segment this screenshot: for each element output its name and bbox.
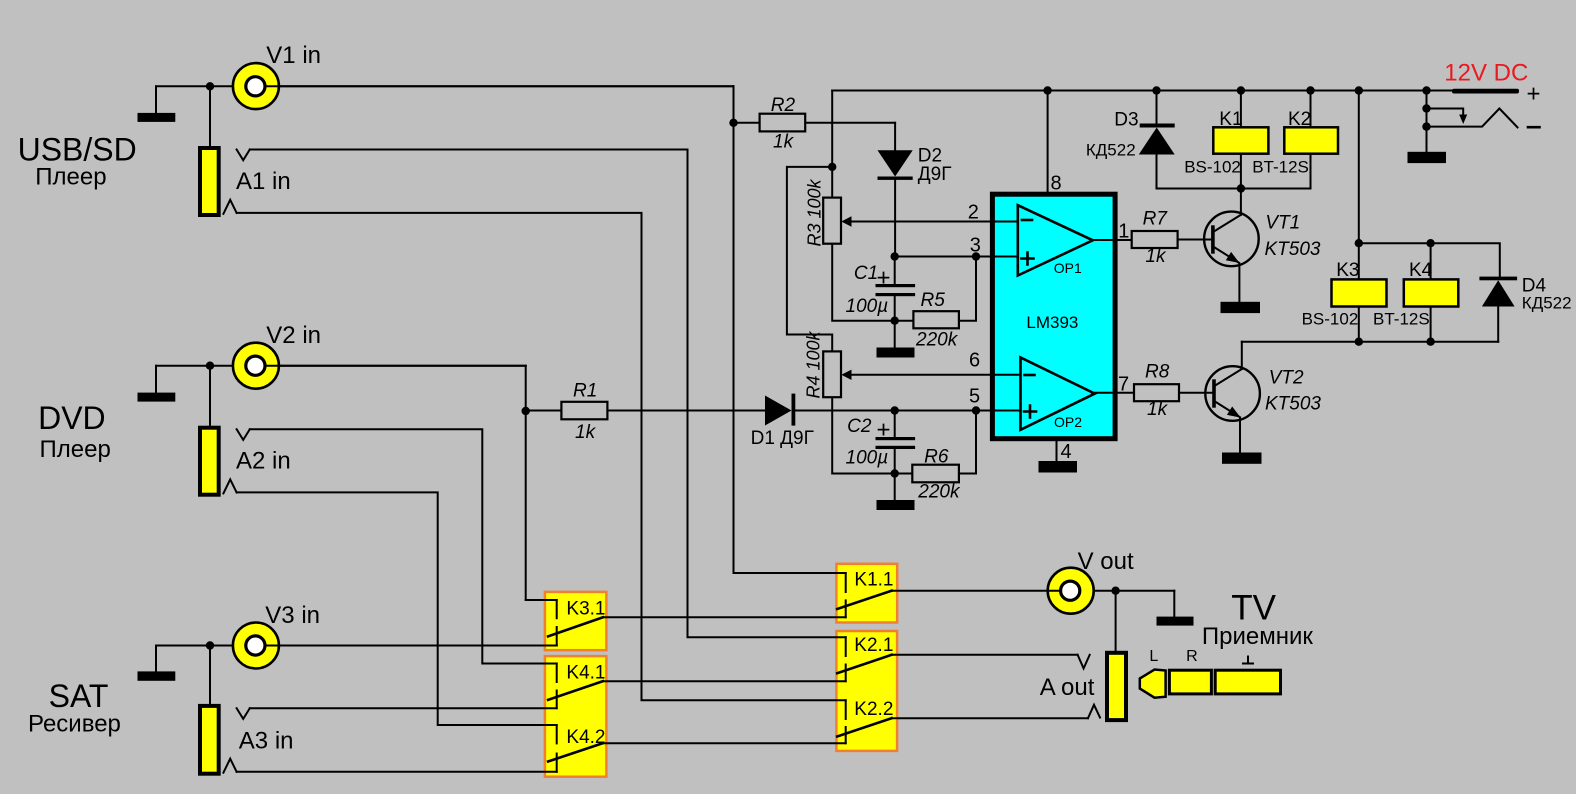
capacitor C2: [894, 411, 896, 438]
resistor R2: [760, 95, 806, 152]
svg-text:KT503: KT503: [1265, 239, 1321, 260]
wire R2 right lead to D2: [805, 122, 895, 124]
ground (SAT input): [155, 646, 157, 672]
svg-text:R6: R6: [924, 447, 949, 468]
svg-text:100µ: 100µ: [846, 448, 889, 469]
wire A1 bottom bus to K2.2: [237, 213, 846, 700]
ground (pin 4): [1039, 461, 1078, 473]
resistor R8 1k: [1134, 362, 1179, 420]
jack contact chevron A3 bottom: [223, 759, 236, 773]
jack contact chevron A3 top: [237, 708, 250, 719]
wire A3 top to K4.1 bottom: [250, 707, 557, 709]
diode D1: [765, 396, 792, 426]
wire pin 1 output: [1093, 239, 1132, 241]
svg-text:Плеер: Плеер: [35, 164, 106, 191]
transistor VT1 KT503: [1204, 212, 1259, 267]
potentiometer R4 100k: [804, 330, 842, 398]
svg-text:BT-12S: BT-12S: [1252, 158, 1309, 177]
wire DC jack contacts: [1426, 91, 1428, 152]
power plug sleeve bar: [1452, 89, 1519, 94]
IC U1 LM393 body: [992, 194, 1115, 439]
node C2 top / pin5: [891, 406, 899, 414]
svg-text:USB/SD: USB/SD: [18, 132, 137, 168]
wire relay K2 coil feed: [1310, 91, 1312, 189]
node R1 tap on V2 bus: [522, 407, 530, 415]
node K3 bottom: [1355, 338, 1363, 346]
svg-text:1k: 1k: [575, 422, 597, 443]
audio jack A1 in: [200, 148, 219, 215]
svg-text:Ресивер: Ресивер: [28, 711, 121, 738]
svg-text:R3 100k: R3 100k: [805, 178, 825, 246]
svg-text:K4: K4: [1409, 260, 1433, 281]
wire A1 jack feed: [209, 86, 211, 148]
wire R6 left lead: [895, 473, 913, 475]
svg-text:SAT: SAT: [49, 678, 109, 714]
svg-text:R2: R2: [771, 95, 796, 116]
relay contact box K3.1: [545, 592, 607, 650]
wire K3.1 common to K1.1 bottom: [603, 616, 846, 618]
svg-text:A out: A out: [1040, 674, 1095, 701]
wire pin 6 inside: [992, 374, 1020, 376]
wire K4.1 common to K2.1 bottom: [603, 680, 846, 682]
wire R4 bottom to C2 bottom node: [832, 397, 895, 473]
wire R2 left lead: [734, 122, 760, 124]
svg-text:R5: R5: [921, 290, 946, 311]
svg-text:R1: R1: [573, 381, 597, 402]
svg-text:OP2: OP2: [1054, 414, 1082, 430]
jack contact chevron A out bottom: [1088, 705, 1100, 718]
svg-text:1k: 1k: [1147, 399, 1169, 420]
relay contact K4.2 switch: [556, 725, 558, 743]
svg-text:K4.2: K4.2: [566, 727, 605, 748]
wire op-amp pin 2 to R3 wiper arrow: [851, 221, 992, 223]
resistor R5 220k: [913, 290, 959, 351]
relay coil K4: [1373, 260, 1458, 329]
wire pin 5 inside: [992, 410, 1020, 412]
relay contact box K1.1: [836, 564, 897, 623]
ground (VT1 emitter): [1221, 302, 1261, 313]
wire rail drop to R3/R4 node: [831, 91, 833, 167]
svg-text:6: 6: [969, 350, 980, 372]
wire pin 2 inside: [992, 221, 1017, 223]
wire R5 right lead up to pin 3: [959, 257, 976, 321]
wire D3/K1/K2 bottom link: [1157, 188, 1311, 190]
wire VT2 collector link to K3/K4/D4: [1242, 341, 1498, 343]
svg-text:V2 in: V2 in: [266, 322, 321, 349]
svg-text:A2 in: A2 in: [236, 448, 291, 475]
wire pin 7 output: [1092, 392, 1134, 394]
jack contact chevron A1 bottom: [223, 200, 236, 214]
svg-text:12V DC: 12V DC: [1444, 60, 1528, 87]
svg-text:K1: K1: [1219, 109, 1242, 130]
ground (VT2 emitter): [1222, 453, 1262, 464]
node C1 top / pin3: [891, 252, 899, 260]
svg-text:K1.1: K1.1: [854, 569, 893, 590]
wire R5 left lead: [895, 320, 914, 322]
svg-text:A3 in: A3 in: [239, 728, 294, 755]
svg-text:R4 100k: R4 100k: [804, 330, 824, 398]
svg-text:BS-102: BS-102: [1184, 158, 1241, 177]
ground (DVD input): [155, 366, 157, 393]
node rail D3: [1152, 86, 1160, 94]
node DC jack sleeve contact: [1422, 104, 1430, 112]
svg-text:K2.2: K2.2: [854, 699, 893, 720]
wire K4.2 common to K2.2 bottom: [603, 742, 846, 744]
svg-text:КД522: КД522: [1522, 294, 1572, 313]
svg-text:2: 2: [968, 202, 979, 224]
svg-text:+: +: [877, 265, 891, 292]
wire K3/K4 supply drop: [1358, 91, 1360, 280]
wire R1 right lead to D1: [607, 410, 765, 412]
svg-text:K3.1: K3.1: [566, 599, 605, 620]
wire A2 jack feed: [209, 366, 211, 428]
node R3/R4 supply: [828, 163, 836, 171]
svg-text:L: L: [1149, 648, 1158, 665]
svg-text:LM393: LM393: [1026, 313, 1078, 332]
node DC jack pin contact: [1422, 122, 1430, 130]
audio jack A2 in: [200, 428, 219, 495]
ground (C1/R5 node): [894, 321, 896, 348]
node V out tap: [1111, 587, 1119, 595]
RCA jack V2 in: [233, 343, 526, 389]
ground (C2/R6 node): [894, 474, 896, 501]
wire R3 top lead: [831, 167, 833, 198]
node K4 top: [1426, 239, 1434, 247]
TRS plug ring: [1169, 670, 1211, 694]
wire K1.1 common to V out: [892, 590, 1175, 592]
wire A2 bottom bus to K4.2: [237, 492, 557, 725]
node rail K3K4 branch: [1355, 86, 1363, 94]
svg-text:5: 5: [969, 386, 980, 408]
diode D4: [1479, 277, 1517, 281]
jack contact chevron A1 top: [237, 150, 250, 161]
wire pin 8 from rail: [1047, 91, 1049, 195]
svg-text:4: 4: [1061, 441, 1072, 463]
jack contact chevron A out top: [1078, 655, 1090, 669]
relay coil K3: [1302, 260, 1387, 329]
svg-text:C2: C2: [847, 416, 872, 437]
node C1 bottom: [891, 317, 899, 325]
svg-text:1k: 1k: [773, 131, 795, 152]
svg-text:100µ: 100µ: [846, 296, 889, 317]
wire branch to R4 top: [787, 167, 832, 352]
wire relay K1 coil feed: [1240, 91, 1242, 189]
wire V3 signal from ground stub through RCA to K3.1 bottom: [156, 645, 557, 647]
svg-text:V3 in: V3 in: [265, 602, 320, 629]
svg-text:1: 1: [1118, 221, 1129, 243]
wire A1 top bus to K2.1: [250, 150, 846, 638]
node junction V1: [206, 82, 214, 90]
svg-text:Приемник: Приемник: [1202, 623, 1314, 650]
svg-text:VT2: VT2: [1269, 368, 1304, 389]
wire R3 bottom to C1 bottom node: [832, 244, 895, 321]
resistor R6 220k: [912, 447, 961, 503]
RCA jack V out: [1048, 568, 1094, 614]
svg-text:D3: D3: [1114, 110, 1138, 131]
ground (V out): [1173, 591, 1175, 617]
node junction V2: [206, 362, 214, 370]
resistor R1: [561, 381, 607, 444]
svg-text:R: R: [1186, 648, 1198, 665]
wire K3/K4 top link to D4: [1359, 243, 1500, 276]
ground (USB/SD input): [155, 86, 157, 113]
label ground pin: [1243, 657, 1253, 664]
RCA jack V1 in: [233, 63, 734, 109]
wire op-amp pin 6 to R4 wiper arrow: [851, 374, 992, 376]
svg-text:1k: 1k: [1145, 246, 1167, 267]
svg-text:8: 8: [1051, 173, 1062, 195]
wire K3 coil bottom: [1358, 307, 1360, 342]
svg-text:220k: 220k: [915, 330, 959, 351]
svg-text:K3: K3: [1336, 260, 1359, 281]
relay coil K2: [1252, 109, 1338, 177]
op-amp OP2: [1021, 358, 1095, 430]
transistor VT2 KT503: [1205, 366, 1260, 421]
svg-text:BT-12S: BT-12S: [1373, 310, 1430, 329]
wire R7 to VT1 base: [1178, 239, 1213, 241]
node K4 bottom: [1426, 338, 1434, 346]
node C2 bottom: [891, 469, 899, 477]
svg-text:R8: R8: [1145, 362, 1170, 383]
wire K2.1 common to A out top: [892, 654, 1078, 656]
svg-text:K4.1: K4.1: [566, 663, 605, 684]
power plug center pin detector: [1427, 109, 1464, 116]
svg-text:D1 Д9Г: D1 Д9Г: [751, 428, 814, 449]
wire V2 signal from ground stub through RCA to bus: [156, 365, 526, 367]
svg-text:Плеер: Плеер: [40, 436, 111, 463]
diode D3: [1156, 91, 1158, 124]
wire op-amp pin 3: [895, 256, 993, 258]
wire A3 bottom to K4.2 bottom: [237, 771, 557, 773]
svg-text:R7: R7: [1143, 209, 1169, 230]
wire V out tap to A out jack: [1115, 591, 1117, 653]
svg-text:3: 3: [970, 235, 981, 257]
capacitor C1: [894, 257, 896, 285]
relay contact box K2.1/K2.2: [836, 631, 897, 751]
RCA jack V3 in: [233, 623, 557, 669]
audio jack A3 in: [200, 706, 219, 774]
node R5/pin3: [972, 252, 980, 260]
relay contact K4.1 switch: [556, 664, 558, 683]
svg-text:7: 7: [1118, 374, 1129, 396]
node rail K1: [1237, 86, 1245, 94]
jack contact chevron A2 bottom: [223, 479, 236, 493]
svg-text:V out: V out: [1078, 548, 1134, 575]
potentiometer R3 100k: [805, 178, 842, 246]
svg-text:K2: K2: [1288, 109, 1311, 130]
wire V1 signal from ground stub through RCA to detector branch: [156, 85, 734, 87]
ground (DC jack): [1408, 152, 1447, 163]
wire K2.2 common to A out bottom: [892, 717, 1088, 719]
wire D1 to op-amp pin 5: [795, 410, 992, 412]
wire A3 jack feed: [209, 646, 211, 706]
wire K4 coil feed: [1430, 243, 1432, 342]
resistor R7 1k: [1132, 209, 1178, 268]
svg-text:V1 in: V1 in: [266, 42, 321, 69]
relay contact box K4.1/K4.2: [545, 656, 607, 777]
svg-text:K2.1: K2.1: [854, 635, 893, 656]
wire V2 bus down to R1 node and K3.1: [526, 366, 557, 600]
wire pin 3 inside: [992, 256, 1017, 258]
svg-text:KT503: KT503: [1265, 394, 1321, 415]
audio jack A out: [1107, 653, 1126, 720]
node rail K2: [1306, 86, 1314, 94]
wire V1 bus down to K1.1: [734, 86, 846, 573]
TRS plug sleeve: [1215, 670, 1280, 694]
svg-text:C1: C1: [854, 263, 878, 284]
svg-text:OP1: OP1: [1054, 260, 1082, 276]
relay contact K3.1 switch: [526, 600, 557, 618]
wire R6 right lead up to pin 5: [959, 411, 976, 474]
relay contact K1.1 switch: [845, 573, 847, 592]
node junction V3: [206, 641, 214, 649]
wire pin 4 to ground: [1056, 439, 1058, 461]
svg-text:+: +: [877, 417, 891, 444]
wire R8 to VT2 base: [1179, 392, 1214, 394]
svg-text:BS-102: BS-102: [1302, 310, 1359, 329]
label minus terminal: [1528, 126, 1540, 129]
diode D2: [894, 123, 896, 151]
svg-text:220k: 220k: [917, 482, 961, 503]
TRS plug tip: [1140, 670, 1166, 698]
svg-text:TV: TV: [1231, 589, 1276, 628]
jack contact chevron A2 top: [237, 429, 250, 440]
svg-text:A1 in: A1 in: [236, 168, 291, 195]
wire A2 top bus to K4.1: [250, 429, 557, 663]
relay contact K2.2 switch: [845, 700, 847, 719]
op-amp OP1: [1018, 205, 1093, 275]
node rail pin8: [1043, 86, 1051, 94]
svg-text:+: +: [1527, 81, 1541, 108]
wire R1 left lead: [526, 410, 562, 412]
svg-text:VT1: VT1: [1265, 213, 1300, 234]
node R6/pin5: [972, 406, 980, 414]
svg-text:КД522: КД522: [1086, 141, 1136, 160]
relay coil K1: [1184, 109, 1268, 177]
node rail DC jack: [1422, 86, 1430, 94]
svg-text:DVD: DVD: [38, 400, 106, 436]
relay contact K2.1 switch: [845, 637, 847, 656]
node K3 top: [1355, 239, 1363, 247]
node R2 tap: [729, 119, 737, 127]
wire +12V rail: [832, 90, 1452, 92]
svg-text:Д9Г: Д9Г: [918, 164, 952, 185]
node VT1 collector: [1237, 184, 1245, 192]
